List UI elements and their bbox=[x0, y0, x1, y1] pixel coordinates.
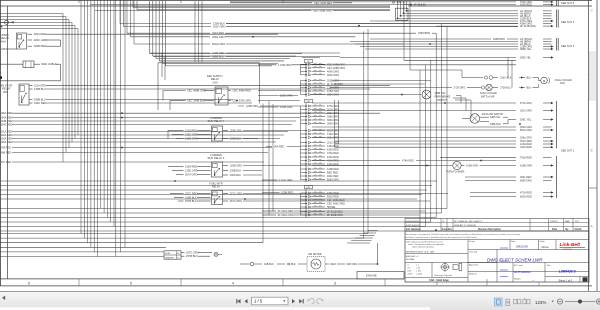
connector RED CABLE bbox=[0, 61, 34, 68]
svg-text:SEE SHT 4: SEE SHT 4 bbox=[561, 20, 575, 24]
connector pin 301A ORG bbox=[301, 108, 340, 111]
svg-text:EO Level: EO Level bbox=[514, 265, 523, 267]
svg-text:91B ORG: 91B ORG bbox=[347, 263, 358, 266]
svg-text:209a ORG: 209a ORG bbox=[327, 137, 339, 140]
svg-text:4: 4 bbox=[232, 282, 234, 286]
wire fan top-center bbox=[133, 1, 390, 66]
connector pin 409A ORG bbox=[301, 70, 340, 73]
svg-text:None: None bbox=[542, 245, 550, 249]
svg-text:CEC 9135 RED: CEC 9135 RED bbox=[314, 1, 332, 5]
connector pin 305A ORG bbox=[301, 119, 340, 122]
connector pin 904A ORG bbox=[301, 74, 340, 77]
sheet border top inner right segment bbox=[408, 5, 592, 7]
title block frame bbox=[405, 231, 589, 282]
wire 257B BLK bbox=[178, 199, 211, 203]
zone ticks top bbox=[79, 0, 283, 3]
wire 438A ORG bbox=[226, 23, 552, 26]
svg-text:67Ta ORG: 67Ta ORG bbox=[520, 102, 532, 105]
wire 386D YEL lower bbox=[340, 56, 554, 59]
wire 105B BLK bbox=[174, 196, 211, 200]
connector pin 398A ORG bbox=[301, 93, 340, 96]
wire 133H BLK bbox=[398, 17, 552, 20]
label CARRIER RUN RELAY 2 bbox=[208, 153, 225, 160]
svg-text:386D YEL: 386D YEL bbox=[520, 48, 532, 51]
logo Link-Belt bbox=[560, 242, 586, 251]
svg-text:AT (SHLD): AT (SHLD) bbox=[414, 4, 426, 7]
svg-text:Weight: Weight bbox=[514, 277, 521, 280]
wire 139B BLU bbox=[29, 87, 370, 91]
svg-text:42SB RED: 42SB RED bbox=[34, 44, 47, 48]
connector header F8 bbox=[305, 60, 313, 64]
svg-text:SEE SHT 2: SEE SHT 2 bbox=[561, 44, 575, 48]
svg-text:JCC: JCC bbox=[575, 221, 580, 223]
wire CEC 329B ORG bbox=[95, 9, 390, 13]
svg-text:123B ORG: 123B ORG bbox=[246, 105, 258, 108]
connector pin 124B RED bbox=[301, 168, 340, 171]
relay K2 BN STOP RELAY bbox=[19, 84, 29, 105]
wire loop horn relay bbox=[60, 40, 62, 46]
svg-text:91B BLK: 91B BLK bbox=[264, 263, 274, 266]
connector pin 413A RED bbox=[301, 163, 339, 166]
svg-text:CEC 408A RED: CEC 408A RED bbox=[233, 89, 251, 93]
svg-text:09A RED: 09A RED bbox=[274, 146, 284, 149]
svg-text:and details contained herein i: and details contained herein is prohibit… bbox=[406, 236, 478, 239]
sheet border bottom outer bbox=[0, 285, 592, 287]
svg-text:904A ORG: 904A ORG bbox=[327, 74, 339, 77]
svg-text:83HH ORG: 83HH ORG bbox=[212, 42, 225, 46]
svg-text:851A ORG: 851A ORG bbox=[520, 129, 532, 132]
connector pin CEC 406C RED bbox=[301, 202, 346, 205]
svg-text:324E GRN: 324E GRN bbox=[212, 35, 225, 39]
wire 1 10C ORG bbox=[262, 178, 293, 182]
wire GRN bbox=[1, 47, 17, 51]
wire CEC 354B BLK bbox=[170, 99, 214, 103]
wire 410A RED bbox=[335, 146, 554, 149]
svg-text:939C RED: 939C RED bbox=[34, 101, 47, 105]
component FUEL HEATER bbox=[164, 251, 181, 260]
svg-text:410A RED: 410A RED bbox=[520, 146, 532, 149]
wire corner 123B bbox=[162, 53, 165, 80]
svg-text:103B ORG: 103B ORG bbox=[280, 105, 293, 109]
wire 212A continuation bbox=[330, 87, 340, 89]
wire 939B BLU bbox=[29, 98, 233, 102]
wire fan verticals to labelled rows bbox=[120, 0, 134, 44]
wire staircase park brake to air flow bbox=[453, 96, 471, 119]
connector pin ZF 902B ORG bbox=[301, 214, 344, 217]
bracket SEE SHT 2 middle bbox=[557, 101, 575, 153]
svg-text:301A ORG: 301A ORG bbox=[520, 110, 532, 113]
wire 413B GRN bbox=[520, 164, 554, 167]
wire ZF 314B ORG bbox=[436, 25, 553, 28]
wire 301A ORG bbox=[312, 109, 554, 112]
wire 432A RED 3466 BRN bbox=[127, 31, 436, 35]
switch PARK BRAKE bbox=[311, 90, 451, 102]
wire A6 (BRN) bbox=[404, 12, 552, 15]
connector header DRL bbox=[305, 99, 313, 103]
connector pin ZF 314B ORG bbox=[301, 83, 344, 86]
wire 201E ORG continuation bbox=[332, 80, 431, 82]
connector pin SPARE bbox=[301, 206, 336, 209]
connector pin 606A ORG bbox=[301, 178, 340, 181]
wire 257D ORG bbox=[181, 251, 212, 255]
svg-text:3466 BRN: 3466 BRN bbox=[418, 31, 430, 35]
connector pin 303A ORG bbox=[301, 112, 340, 115]
svg-text:257D ORG: 257D ORG bbox=[186, 251, 199, 255]
svg-text:257A ORG: 257A ORG bbox=[185, 173, 198, 177]
svg-text:5/8/2018: 5/8/2018 bbox=[516, 245, 528, 249]
wire 83HH ORG bbox=[134, 42, 404, 46]
connector rail DRL bbox=[301, 103, 307, 182]
wire 257A ORG bbox=[176, 173, 211, 177]
wire descender 938C bbox=[508, 58, 512, 88]
zoom dropdown arrow bbox=[552, 301, 554, 303]
wire 9AB RED bbox=[1, 152, 269, 155]
svg-text:257B BLK: 257B BLK bbox=[185, 199, 197, 203]
wire vertical x410 with row bbox=[410, 1, 462, 78]
svg-text:CAD - Solid Edge: CAD - Solid Edge bbox=[429, 279, 449, 282]
svg-text:9AB RED: 9AB RED bbox=[1, 152, 12, 155]
wire 257C RED bbox=[170, 192, 211, 196]
history back icon bbox=[307, 299, 314, 304]
wire 606A ORG bbox=[465, 180, 552, 183]
wire H6 (BRN) bbox=[350, 41, 552, 44]
wire F2A feed verticals bbox=[397, 1, 408, 19]
connector pin CEC 408B ORG bbox=[301, 67, 346, 70]
svg-text:424A RED: 424A RED bbox=[520, 4, 532, 7]
wire 120A RED bbox=[335, 143, 554, 146]
connector pin 67BA ORG bbox=[301, 90, 340, 93]
svg-text:.XXXX: .XXXX bbox=[407, 274, 413, 276]
third angle projection symbol bbox=[440, 262, 462, 272]
svg-text:RELAY: RELAY bbox=[212, 185, 221, 189]
page nav next button bbox=[292, 299, 295, 303]
connector pin ZF 901B RED bbox=[301, 210, 343, 213]
wire 939E BLU bbox=[153, 55, 340, 59]
svg-text:GRN: GRN bbox=[1, 47, 7, 51]
svg-text:105B BLK: 105B BLK bbox=[185, 196, 197, 200]
connector rail F8 bbox=[301, 63, 307, 78]
svg-text:Drawn: Drawn bbox=[469, 240, 476, 243]
svg-text:6: 6 bbox=[28, 282, 30, 286]
wire 1 10B ORG bbox=[258, 63, 516, 67]
wire 103B ORG bbox=[223, 164, 430, 168]
connector pin 406L RED bbox=[301, 175, 339, 178]
wire bus upper rows bbox=[0, 181, 437, 199]
wire 09A RED pin feed bbox=[266, 146, 301, 149]
wire ZF 902A ORG bbox=[262, 213, 420, 217]
component AIR DRYER bbox=[307, 253, 325, 272]
wire 104B RED bbox=[1, 120, 297, 123]
svg-text:inches. The tolerances below: inches. The tolerances below are applica… bbox=[408, 243, 444, 246]
wire 123B ORG bbox=[150, 51, 340, 55]
svg-text:ZF 901A RED: ZF 901A RED bbox=[278, 209, 294, 213]
sheet border bottom inner bbox=[0, 278, 404, 280]
wire 257A ORG bbox=[223, 199, 430, 203]
wire A2 SHLD 946B BRN bbox=[370, 38, 552, 41]
svg-text:ZF 314B ORG: ZF 314B ORG bbox=[520, 25, 536, 28]
zoom slider bbox=[565, 300, 596, 304]
svg-text:257C RED: 257C RED bbox=[185, 192, 198, 196]
svg-text:309A ORG: 309A ORG bbox=[327, 123, 339, 126]
sheet border top outer bbox=[0, 0, 592, 2]
svg-text:603S RED: 603S RED bbox=[520, 196, 532, 199]
wire 4T4A RED bbox=[312, 160, 516, 163]
component FUEL COOLER BATT WP bbox=[340, 84, 539, 98]
svg-text:This drawing is the property o: This drawing is the property of Link-Bel… bbox=[406, 233, 520, 236]
svg-text:105A RED: 105A RED bbox=[1, 141, 13, 144]
bracket SEE SHT 2 bbox=[557, 38, 575, 51]
zone divider ticks right bbox=[589, 75, 598, 188]
svg-text:SWITCH: SWITCH bbox=[437, 99, 447, 102]
connector pin CEC 409B ORG bbox=[301, 63, 346, 66]
wire CEC 408A RED bbox=[229, 89, 301, 93]
svg-text:CEC 408B ORG: CEC 408B ORG bbox=[187, 89, 206, 93]
wire riser x263 bbox=[262, 104, 264, 243]
wire bracket left of K4 bbox=[167, 131, 169, 139]
connector pin 434A RED bbox=[301, 159, 339, 162]
wire 125D ORG bbox=[172, 169, 211, 173]
svg-text:470A RED: 470A RED bbox=[327, 152, 339, 155]
wire 123B ORG pin feed bbox=[238, 105, 301, 108]
svg-text:946B BRN: 946B BRN bbox=[493, 38, 505, 41]
svg-text:TURN FLASHER: TURN FLASHER bbox=[446, 171, 465, 174]
zone divider mark left border bbox=[0, 76, 2, 79]
wire 130N BLK bbox=[120, 22, 518, 26]
svg-text:125C ORG: 125C ORG bbox=[185, 133, 198, 137]
wire 938C YEL bbox=[508, 118, 554, 121]
svg-text:SEE SHT 2: SEE SHT 2 bbox=[561, 149, 575, 153]
connector pin 130A RED bbox=[301, 145, 339, 148]
svg-text:DWG ELECT SCHEM LWR: DWG ELECT SCHEM LWR bbox=[487, 257, 543, 262]
svg-text:257A ORG: 257A ORG bbox=[230, 199, 243, 203]
wire 406L RED bbox=[465, 176, 554, 179]
wire air dryer right bbox=[325, 243, 378, 266]
wire 257C ORG bbox=[223, 192, 448, 196]
connector pin 851A ORG bbox=[301, 129, 340, 132]
sheet border top inner bbox=[0, 5, 390, 7]
wire 103A RED bbox=[1, 138, 281, 141]
wire verticals right of strip bbox=[335, 100, 339, 147]
wire vertical x404 with row bbox=[404, 1, 516, 60]
wire 301C RED bbox=[335, 140, 554, 143]
svg-text:FUEL: FUEL bbox=[165, 253, 171, 255]
svg-text:3960 YEL: 3960 YEL bbox=[520, 57, 532, 60]
bracket SEE SHT 4 bbox=[557, 10, 575, 28]
svg-text:110A RED: 110A RED bbox=[185, 129, 197, 133]
svg-text:RED: RED bbox=[331, 263, 336, 266]
signature dashes bbox=[500, 248, 508, 277]
svg-text:RED CABLE: RED CABLE bbox=[42, 62, 57, 66]
horizontal scrollbar thumb bottom bbox=[0, 307, 430, 310]
wire 126D ORG bbox=[176, 137, 211, 141]
relay K5 CARRIER RUN RELAY 2 bbox=[212, 162, 223, 177]
connector pin 603S RED bbox=[301, 195, 340, 198]
wire 103B ORG bbox=[258, 105, 293, 109]
connector header DB1 bbox=[305, 186, 313, 190]
relay K3 DEF SUPPLY RELAY bbox=[215, 87, 228, 105]
label HORN RELAY AAA bbox=[1, 33, 10, 43]
svg-text:000: 000 bbox=[3, 90, 8, 94]
wire 97B RED bbox=[1, 147, 273, 150]
svg-text:432A RED: 432A RED bbox=[212, 31, 224, 35]
wire CEC 378A ORG bbox=[229, 99, 301, 103]
title block middle labels bbox=[469, 240, 552, 280]
svg-text:201F ORG: 201F ORG bbox=[213, 25, 226, 29]
wire verticals left of strip bbox=[269, 101, 273, 215]
wire ZF 314B continuation bbox=[334, 83, 425, 85]
zoom in button bbox=[596, 299, 600, 304]
svg-text:139B BLK: 139B BLK bbox=[230, 137, 242, 141]
svg-text:125D ORG: 125D ORG bbox=[185, 169, 198, 173]
svg-text:BLU: BLU bbox=[527, 77, 532, 80]
svg-text:BLK: BLK bbox=[291, 263, 296, 266]
svg-text:T53A RED: T53A RED bbox=[520, 157, 532, 160]
svg-text:97B RED: 97B RED bbox=[1, 147, 12, 150]
svg-text:2T38 BLU: 2T38 BLU bbox=[500, 87, 511, 90]
svg-text:DECIMAL: DECIMAL bbox=[406, 258, 414, 261]
svg-text:5: 5 bbox=[130, 282, 132, 286]
connector rail DB1 bbox=[301, 189, 307, 218]
svg-text:L8R6438 S: L8R6438 S bbox=[559, 270, 576, 274]
svg-text:1 10C ORG: 1 10C ORG bbox=[279, 178, 293, 182]
svg-text:BLK: BLK bbox=[527, 87, 532, 90]
sheet border left outer bbox=[0, 0, 2, 286]
svg-text:139B BLU: 139B BLU bbox=[34, 87, 46, 91]
wire A8 (BLU) bbox=[401, 15, 552, 18]
wire 42SB RED bbox=[28, 44, 61, 48]
history fwd icon bbox=[317, 299, 324, 304]
wire 424A RED bbox=[90, 3, 554, 6]
connector pin 103A RED bbox=[301, 156, 339, 159]
wire 386D YEL bbox=[365, 48, 554, 51]
wire 102A RED bbox=[1, 134, 285, 137]
wire 939C RED bbox=[29, 101, 252, 105]
wire T52A ORG bbox=[230, 1, 554, 4]
connector pin 410A RED bbox=[301, 148, 339, 151]
page nav prev button bbox=[245, 299, 248, 303]
svg-text:G00: G00 bbox=[213, 80, 218, 84]
svg-text:111A ORG: 111A ORG bbox=[34, 83, 46, 87]
zoom out button bbox=[557, 299, 562, 304]
svg-text:109B RED: 109B RED bbox=[281, 191, 293, 195]
bracket SEE SHT 5 bbox=[557, 0, 575, 7]
svg-text:606A ORG: 606A ORG bbox=[520, 180, 532, 183]
wire bus mid-left bbox=[0, 24, 447, 232]
wire stub 110C bbox=[258, 95, 278, 97]
svg-text:M18T4000014: M18T4000014 bbox=[514, 270, 531, 274]
svg-text:6388 YEL: 6388 YEL bbox=[490, 116, 501, 119]
view mode single page icon bbox=[495, 298, 503, 306]
wire 104C RED bbox=[1, 124, 293, 127]
wire 111A ORG bbox=[29, 83, 390, 87]
revision table bbox=[405, 219, 589, 232]
svg-text:Approved: Approved bbox=[469, 263, 479, 266]
relay K4 CARRIER RUN RELAY 7 bbox=[212, 126, 223, 141]
wire 109B RED bbox=[262, 191, 293, 195]
view mode book icon bbox=[523, 298, 530, 304]
svg-text:CEC 378A ORG: CEC 378A ORG bbox=[233, 99, 252, 103]
relay K6 FUEL WTR RELAY bbox=[212, 191, 223, 205]
connector pin 308A ORG bbox=[301, 115, 340, 118]
svg-text:42SA RED: 42SA RED bbox=[34, 32, 47, 36]
svg-text:± .08: ± .08 bbox=[416, 268, 420, 270]
svg-text:313C BLK: 313C BLK bbox=[500, 77, 512, 80]
svg-text:HEATER: HEATER bbox=[165, 256, 174, 259]
wire 125C ORG bbox=[172, 133, 211, 137]
svg-text:398B YEL: 398B YEL bbox=[435, 92, 447, 95]
title block blue entries bbox=[487, 245, 549, 283]
svg-text:1 / 5: 1 / 5 bbox=[254, 299, 263, 304]
wire T53A RED bbox=[440, 157, 552, 160]
svg-text:106A RED: 106A RED bbox=[1, 112, 13, 115]
wire A6 (BLU) bbox=[355, 43, 552, 46]
drawing number L8R6438 S bbox=[559, 270, 588, 283]
wire 201F ORG bbox=[124, 25, 519, 29]
svg-text:BATT(+) WP: BATT(+) WP bbox=[481, 95, 495, 98]
sheet border right inner bbox=[588, 0, 590, 292]
svg-text:110C ORG: 110C ORG bbox=[280, 94, 293, 98]
connector pin T32A ORG bbox=[301, 133, 340, 136]
label FUEL WTR RELAY bbox=[209, 182, 222, 189]
wire 110C ORG bbox=[279, 94, 299, 98]
wire 110A RED bbox=[168, 129, 211, 133]
connector pin 209a ORG bbox=[301, 136, 340, 139]
page nav last button bbox=[299, 299, 304, 303]
svg-text:2 G9 ORG: 2 G9 ORG bbox=[454, 87, 466, 90]
svg-text:123%: 123% bbox=[535, 300, 546, 305]
vertical scrollbar thumb bbox=[590, 52, 597, 100]
wire bus bottom-left bbox=[0, 29, 368, 257]
svg-text:103B ORG: 103B ORG bbox=[230, 164, 243, 168]
view mode continuous icon bbox=[506, 299, 510, 305]
wire AT SHLD bbox=[405, 4, 426, 7]
svg-text:ZF 902B ORG: ZF 902B ORG bbox=[327, 214, 343, 217]
wire 67Ta ORG bbox=[312, 102, 554, 105]
wire CEC 9135 RED bbox=[230, 1, 352, 5]
label BN STOP RELAY 000 bbox=[1, 84, 13, 94]
svg-text:257B BLK: 257B BLK bbox=[186, 254, 198, 258]
connector pin 67TA ORG bbox=[301, 105, 340, 108]
wire nested corners above engine bbox=[347, 231, 378, 244]
wire 106A RED bbox=[1, 112, 381, 115]
splice 91B BLK bbox=[240, 262, 307, 266]
svg-text:unless otherwise specified.: unless otherwise specified. bbox=[412, 246, 435, 249]
svg-text:126D ORG: 126D ORG bbox=[185, 137, 198, 141]
splice symbol top-left bbox=[0, 20, 14, 24]
svg-text:SPARE: SPARE bbox=[327, 206, 336, 209]
wire CEC 408B ORG bbox=[163, 89, 214, 93]
svg-text:± .0005: ± .0005 bbox=[416, 274, 422, 276]
svg-text:—: — bbox=[532, 279, 535, 282]
wire 305A ORG bbox=[312, 126, 552, 129]
svg-text:110B ORG: 110B ORG bbox=[230, 129, 243, 133]
svg-text:R18T4040022: R18T4040022 bbox=[406, 225, 421, 227]
splice 313C BLK row bbox=[462, 76, 539, 81]
svg-text:Sheet 1 of 5: Sheet 1 of 5 bbox=[559, 280, 573, 283]
wire fan rows from left turning down bbox=[0, 14, 78, 163]
connector pin 4T3A RED bbox=[301, 192, 340, 195]
svg-text:REFERENCE ASSY YD-K... BA8: REFERENCE ASSY YD-K... BA8 bbox=[406, 250, 434, 253]
wire 139B BLK k5 bbox=[223, 169, 262, 173]
svg-text:ZF 902A ORG: ZF 902A ORG bbox=[278, 213, 294, 217]
svg-text:5/18/18: 5/18/18 bbox=[550, 221, 558, 223]
enclosure CEC box bbox=[158, 58, 320, 111]
wire 139B BLK k4 bbox=[223, 137, 258, 141]
wire 209a ORG bbox=[312, 137, 552, 140]
svg-text:AIR DRYER: AIR DRYER bbox=[308, 253, 322, 256]
ground symbol fuel heater bbox=[214, 252, 222, 256]
svg-text:257C ORG: 257C ORG bbox=[230, 192, 243, 196]
